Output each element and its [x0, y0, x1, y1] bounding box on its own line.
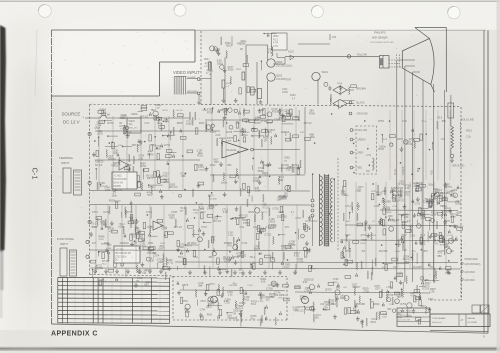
svg-text:4R7-1/2: 4R7-1/2: [169, 186, 178, 189]
svg-text:47u: 47u: [441, 138, 446, 141]
svg-text:D951: D951: [217, 61, 224, 65]
svg-text:YELLOW: YELLOW: [357, 53, 368, 56]
svg-text:C201: C201: [282, 89, 288, 91]
svg-text:2.2K: 2.2K: [429, 291, 435, 294]
svg-text:0.01: 0.01: [142, 273, 147, 275]
svg-text:22K: 22K: [210, 205, 215, 209]
resistor R202: [222, 80, 225, 88]
svg-text:Q502: Q502: [276, 60, 283, 64]
svg-text:C507: C507: [443, 211, 449, 213]
ground under video: [198, 94, 200, 100]
plug symbol: [448, 103, 454, 118]
scan left black strip: [0, 25, 6, 318]
svg-text:GREEN: GREEN: [357, 139, 366, 142]
svg-text:1600u: 1600u: [392, 191, 399, 193]
svg-text:680: 680: [392, 197, 397, 200]
cable wires vertical: [396, 60, 398, 282]
svg-text:PHILIPS: PHILIPS: [374, 31, 386, 35]
svg-text:R709: R709: [295, 287, 301, 289]
svg-text:C704: C704: [403, 254, 410, 258]
dashed module boundary: left: [89, 105, 91, 275]
svg-text:K232: K232: [288, 51, 294, 54]
svg-text:L706: L706: [202, 110, 208, 112]
svg-text:C977: C977: [227, 136, 234, 140]
svg-text:4R7-1/2: 4R7-1/2: [100, 186, 108, 188]
svg-text:0.01: 0.01: [240, 227, 245, 229]
svg-text:100u: 100u: [118, 145, 124, 147]
node white: [197, 78, 200, 81]
svg-text:4R7-1/2: 4R7-1/2: [220, 110, 229, 112]
svg-text:C977: C977: [375, 289, 381, 291]
wire brown diamond: [333, 86, 347, 94]
svg-text:5.6K: 5.6K: [156, 108, 161, 110]
svg-text:IC702: IC702: [244, 132, 251, 134]
node junction: [347, 55, 350, 58]
svg-text:TD-2: TD-2: [389, 304, 395, 306]
svg-text:R904: R904: [99, 236, 106, 239]
svg-text:R753: R753: [107, 121, 114, 125]
svg-text:C708: C708: [240, 44, 246, 46]
svg-text:R753: R753: [405, 183, 412, 187]
box W903: [127, 118, 141, 133]
svg-text:L702: L702: [263, 176, 269, 178]
svg-text:RED-1/6: RED-1/6: [129, 127, 138, 129]
source module components: [125, 126, 128, 129]
wire R522 to R30: [298, 43, 330, 45]
svg-text:R753: R753: [378, 120, 384, 123]
svg-text:R709: R709: [383, 206, 390, 210]
right column cluster: [444, 220, 446, 222]
svg-text:R975: R975: [255, 121, 262, 125]
svg-text:L701: L701: [366, 155, 372, 157]
svg-text:R709: R709: [309, 112, 315, 115]
svg-text:0.01: 0.01: [224, 300, 229, 303]
svg-text:680: 680: [336, 285, 341, 289]
coil L502: [271, 47, 273, 57]
svg-text:C507: C507: [200, 301, 206, 303]
border step: [194, 30, 196, 62]
svg-text:22K: 22K: [180, 245, 185, 249]
svg-text:1600u: 1600u: [379, 145, 386, 148]
svg-text:470: 470: [456, 211, 461, 214]
svg-text:L706: L706: [298, 260, 304, 263]
svg-text:100u: 100u: [118, 225, 124, 229]
svg-text:C977: C977: [376, 195, 382, 197]
svg-text:Q703: Q703: [97, 134, 103, 136]
dashed module boundary: main pcb top: [90, 104, 196, 106]
svg-text:4R7-1/2: 4R7-1/2: [132, 144, 142, 147]
svg-text:C713: C713: [264, 233, 271, 237]
svg-text:R717: R717: [209, 284, 215, 286]
svg-text:C713: C713: [125, 164, 132, 167]
svg-text:1/4W: 1/4W: [137, 277, 143, 280]
svg-text:R753: R753: [197, 156, 203, 158]
svg-text:Nederland: Nederland: [432, 321, 442, 324]
svg-text:TD-2: TD-2: [249, 255, 255, 259]
svg-text:K711: K711: [428, 298, 434, 301]
svg-text:100u: 100u: [134, 227, 140, 229]
svg-text:C751: C751: [139, 242, 146, 245]
op-amp U301 triangle: [222, 141, 248, 158]
svg-text:1R: 1R: [284, 160, 287, 162]
op-amp U601: [119, 160, 129, 170]
svg-text:IC702: IC702: [422, 287, 429, 290]
svg-text:R1-2: R1-2: [273, 39, 279, 41]
svg-text:C708: C708: [328, 300, 335, 303]
transformer dashed core line: [337, 158, 339, 250]
diode K232: [290, 55, 294, 60]
svg-text:L706: L706: [213, 301, 219, 303]
page right edge shade: [497, 0, 500, 353]
svg-text:D951: D951: [287, 247, 293, 249]
svg-text:R522: R522: [273, 36, 279, 38]
svg-text:2200/10: 2200/10: [227, 317, 236, 320]
svg-text:10K: 10K: [238, 269, 243, 272]
svg-text:R975: R975: [177, 122, 184, 125]
svg-text:R753: R753: [345, 250, 352, 253]
speaker driver leads dashed: [396, 55, 398, 69]
ground row left module: [94, 269, 96, 271]
wire yellow to speaker: [285, 55, 380, 57]
svg-text:L702: L702: [194, 213, 200, 215]
svg-text:IC702: IC702: [164, 145, 171, 147]
svg-text:C714: C714: [162, 176, 168, 178]
svg-text:1R: 1R: [119, 122, 122, 125]
svg-text:35V: 35V: [143, 269, 148, 272]
svg-text:HA11244: HA11244: [226, 149, 237, 152]
svg-text:2200/10: 2200/10: [434, 235, 443, 237]
paper crease top-left: [35, 30, 37, 96]
svg-text:1600u: 1600u: [200, 212, 207, 214]
svg-text:INPUT: INPUT: [61, 161, 70, 165]
punch hole 3: [311, 6, 323, 18]
svg-text:K508: K508: [337, 83, 343, 85]
svg-text:1R: 1R: [393, 267, 396, 269]
svg-text:470: 470: [228, 245, 233, 248]
left module lower components: [108, 269, 114, 272]
svg-text:1600u: 1600u: [279, 294, 286, 297]
svg-text:C714: C714: [406, 142, 413, 146]
svg-text:HSI-354QR: HSI-354QR: [372, 36, 388, 40]
svg-text:C751: C751: [333, 278, 339, 281]
svg-text:4R7-1/2: 4R7-1/2: [174, 226, 183, 229]
svg-text:D951: D951: [340, 296, 347, 300]
svg-text:TD-2: TD-2: [193, 208, 199, 212]
svg-text:D951: D951: [331, 304, 337, 306]
svg-text:K753: K753: [250, 314, 257, 318]
svg-text:R753: R753: [162, 110, 168, 112]
svg-text:Q703: Q703: [325, 288, 332, 292]
svg-text:35V: 35V: [315, 316, 320, 319]
junction dots: [238, 140, 239, 141]
svg-text:1600u: 1600u: [131, 113, 138, 116]
punch hole 2: [174, 4, 186, 16]
svg-text:L702: L702: [204, 66, 210, 68]
svg-text:35V: 35V: [442, 120, 447, 123]
svg-text:10K: 10K: [450, 250, 455, 253]
svg-text:R975: R975: [279, 212, 285, 214]
svg-text:K711: K711: [263, 206, 269, 209]
svg-text:C977: C977: [355, 286, 362, 289]
svg-text:R203: R203: [236, 69, 242, 71]
svg-text:K753: K753: [398, 191, 404, 193]
svg-text:SOURCE: SOURCE: [62, 112, 81, 117]
svg-text:C713: C713: [140, 246, 146, 248]
svg-text:1/4W: 1/4W: [92, 226, 98, 229]
svg-text:1/4W: 1/4W: [197, 163, 204, 167]
svg-text:330: 330: [258, 253, 263, 256]
connector J201 hatch: [173, 77, 175, 95]
svg-text:100u: 100u: [112, 194, 118, 197]
svg-text:C704: C704: [200, 309, 206, 311]
svg-text:4R7-1/2: 4R7-1/2: [239, 213, 249, 217]
svg-text:RADIAL: RADIAL: [468, 317, 477, 320]
svg-text:1R: 1R: [136, 281, 139, 283]
resistor R527b: [251, 87, 255, 95]
right of transistors cluster: [351, 85, 357, 88]
svg-text:4R7-1/2: 4R7-1/2: [304, 123, 313, 125]
svg-text:1R: 1R: [185, 311, 188, 314]
op-amp U701: [153, 221, 163, 230]
svg-text:TD-2: TD-2: [102, 264, 108, 266]
output section components top: [401, 216, 403, 222]
schematic border top: [51, 29, 195, 31]
svg-text:Q973: Q973: [297, 306, 304, 309]
svg-text:0.01: 0.01: [303, 281, 308, 284]
svg-text:2200/10: 2200/10: [277, 215, 287, 219]
svg-text:R709: R709: [147, 152, 154, 156]
svg-text:10K: 10K: [113, 153, 117, 155]
svg-text:1R: 1R: [295, 115, 298, 119]
svg-text:TD-2: TD-2: [178, 256, 184, 259]
punch hole 4: [448, 6, 460, 18]
svg-text:R709: R709: [378, 149, 384, 151]
svg-text:2.2K: 2.2K: [228, 295, 233, 297]
svg-text:K753: K753: [445, 272, 451, 275]
svg-text:D951: D951: [442, 206, 448, 208]
svg-text:PRODUCER: PRODUCER: [465, 259, 478, 261]
svg-text:2SC1815(Q)(L): 2SC1815(Q)(L): [276, 64, 293, 67]
svg-text:R975: R975: [397, 139, 403, 141]
svg-text:C507: C507: [95, 127, 101, 130]
resistor R601 zigzag: [450, 95, 452, 126]
svg-text:K753: K753: [409, 139, 415, 141]
svg-text:60-1/2: 60-1/2: [95, 163, 103, 167]
wires top-center verticals: [210, 62, 212, 105]
svg-text:K711: K711: [92, 210, 98, 214]
svg-text:680: 680: [437, 254, 442, 258]
svg-text:C977: C977: [345, 235, 351, 237]
svg-text:R975: R975: [182, 283, 189, 287]
svg-text:Q703: Q703: [283, 164, 290, 167]
photocopy speckle: [57, 32, 488, 330]
svg-text:K753: K753: [361, 243, 367, 245]
svg-text:GROUND: GROUND: [465, 280, 476, 282]
schematic border bottom: [51, 324, 263, 328]
svg-text:1R: 1R: [233, 313, 236, 315]
svg-text:C.F.Q/C.72001: C.F.Q/C.72001: [398, 315, 412, 317]
svg-text:C-1: C-1: [31, 168, 40, 180]
svg-text:R717: R717: [266, 122, 273, 125]
svg-text:1R: 1R: [429, 206, 432, 208]
svg-text:K711: K711: [168, 261, 174, 265]
svg-text:YELLOW: YELLOW: [357, 129, 368, 132]
svg-text:C977: C977: [374, 285, 381, 288]
svg-text:HD7: HD7: [151, 109, 157, 112]
svg-text:0.01: 0.01: [97, 130, 102, 133]
speaker frame: [415, 27, 446, 29]
svg-text:C704: C704: [272, 285, 278, 288]
svg-text:C704: C704: [285, 113, 291, 115]
svg-text:R30: R30: [332, 37, 337, 39]
svg-text:35V: 35V: [208, 255, 213, 259]
R203: [242, 72, 245, 80]
terminal input circles: [88, 132, 91, 135]
svg-text:5.6K: 5.6K: [105, 113, 110, 116]
svg-text:HD7: HD7: [144, 283, 149, 286]
svg-text:35V: 35V: [200, 207, 205, 211]
svg-text:GROUND: GROUND: [357, 113, 368, 116]
svg-text:2SC458(Q)(g): 2SC458(Q)(g): [276, 78, 291, 81]
title block: [397, 308, 430, 326]
svg-text:R512: R512: [210, 165, 216, 167]
svg-text:L702: L702: [382, 317, 388, 319]
bottom right of module components: [425, 280, 439, 282]
svg-text:K753: K753: [148, 225, 155, 229]
svg-text:BLUE: BLUE: [394, 168, 397, 175]
svg-text:Q501: Q501: [276, 74, 283, 78]
connector block left: [63, 168, 71, 193]
svg-text:R904: R904: [386, 212, 392, 214]
svg-text:L706: L706: [341, 193, 347, 196]
svg-text:R717: R717: [127, 212, 133, 214]
svg-text:C977: C977: [423, 201, 430, 204]
svg-text:2.2K: 2.2K: [405, 188, 410, 190]
connector pins: [350, 129, 353, 132]
svg-text:C713: C713: [414, 204, 420, 206]
svg-text:0.01: 0.01: [323, 310, 328, 312]
svg-text:K753: K753: [396, 276, 402, 278]
svg-text:TD-2: TD-2: [147, 194, 153, 197]
svg-text:R512: R512: [332, 282, 338, 284]
svg-text:2.2K: 2.2K: [391, 221, 396, 223]
dashed module boundary: right: [460, 107, 462, 300]
svg-text:1/4W: 1/4W: [239, 218, 245, 220]
svg-text:R975: R975: [444, 220, 450, 223]
svg-text:22K: 22K: [150, 260, 155, 263]
IC U702: [114, 246, 140, 263]
scan bottom band: [0, 347, 500, 348]
svg-text:60-1/2: 60-1/2: [177, 110, 184, 112]
module top row cluster: [192, 117, 194, 125]
svg-text:1/4W: 1/4W: [104, 243, 110, 245]
svg-text:C708: C708: [363, 290, 369, 293]
svg-text:C713: C713: [186, 120, 192, 123]
svg-text:GROUNTED(2): GROUNTED(2): [465, 264, 481, 266]
svg-text:HD74HC04P: HD74HC04P: [113, 178, 127, 181]
transistor Q971: [211, 296, 218, 303]
svg-text:R: R: [483, 335, 485, 339]
svg-text:2SC458: 2SC458: [229, 285, 237, 287]
svg-text:9/5 WIRE: 9/5 WIRE: [468, 322, 478, 324]
svg-text:47u: 47u: [235, 304, 240, 308]
svg-text:47u: 47u: [411, 250, 416, 253]
svg-text:499P60: 499P60: [113, 186, 122, 188]
center lower components: [236, 243, 238, 251]
svg-text:22K: 22K: [163, 227, 167, 229]
svg-text:47u: 47u: [235, 121, 240, 125]
svg-text:HD74HC4P 2/6: HD74HC4P 2/6: [115, 253, 132, 255]
svg-text:1/4W: 1/4W: [148, 242, 154, 245]
svg-text:10K: 10K: [320, 304, 325, 306]
svg-text:5.6K: 5.6K: [121, 113, 127, 117]
svg-text:10/50: 10/50: [282, 92, 288, 94]
svg-text:R717: R717: [399, 199, 406, 202]
svg-text:5.6K: 5.6K: [402, 121, 407, 123]
svg-text:2200/10: 2200/10: [263, 165, 272, 167]
node brown: [197, 92, 200, 95]
svg-text:L706: L706: [392, 206, 398, 208]
module vertical wires: [98, 116, 100, 190]
svg-text:IC702: IC702: [300, 297, 307, 301]
svg-text:HD7: HD7: [214, 161, 220, 164]
svg-text:C751: C751: [446, 186, 452, 189]
svg-text:R208: R208: [290, 95, 296, 97]
svg-text:R529: R529: [258, 170, 265, 173]
svg-text:W201: W201: [322, 71, 329, 74]
svg-text:0.01: 0.01: [410, 235, 415, 238]
svg-text:1R: 1R: [415, 191, 418, 193]
svg-text:IC702: IC702: [397, 272, 404, 275]
svg-text:BROWN: BROWN: [357, 88, 367, 91]
transistor Q501: [267, 73, 275, 81]
svg-text:R717: R717: [262, 212, 268, 214]
svg-text:L702: L702: [387, 286, 393, 289]
svg-text:C713: C713: [163, 172, 169, 175]
transistor W201: [312, 72, 320, 80]
svg-text:2.2K: 2.2K: [215, 134, 220, 137]
transistor Q973: [301, 296, 308, 303]
svg-text:5.6K: 5.6K: [111, 165, 116, 167]
svg-text:IC702: IC702: [273, 209, 280, 211]
svg-text:C713: C713: [146, 211, 153, 214]
svg-text:R601: R601: [415, 186, 421, 188]
svg-text:C708: C708: [171, 211, 177, 214]
dashed module boundary: bottom-left: [90, 275, 174, 277]
svg-text:4xC.Q/C.72B: 4xC.Q/C.72B: [398, 320, 410, 322]
svg-text:2.2K: 2.2K: [228, 231, 234, 235]
cable wires join top: [397, 59, 415, 61]
svg-text:R529: R529: [248, 212, 254, 214]
svg-text:2.2K: 2.2K: [300, 132, 305, 134]
svg-text:D951: D951: [455, 203, 462, 206]
svg-text:35V: 35V: [266, 300, 271, 302]
svg-text:2SC458: 2SC458: [381, 200, 391, 204]
svg-text:DC: DC: [115, 260, 119, 262]
svg-text:R512: R512: [244, 298, 250, 301]
connector right cluster: [400, 147, 402, 149]
speaker driver magnet: [380, 56, 390, 69]
svg-text:W903: W903: [129, 120, 136, 123]
svg-text:R717: R717: [186, 246, 192, 248]
svg-text:GREY: GREY: [357, 152, 364, 155]
svg-text:470: 470: [285, 226, 290, 229]
svg-text:K753: K753: [243, 222, 250, 225]
svg-text:R512: R512: [371, 322, 377, 324]
dashed module box: bottom-center: [172, 276, 174, 320]
svg-text:K753: K753: [99, 239, 105, 241]
svg-text:Q703: Q703: [157, 123, 163, 125]
